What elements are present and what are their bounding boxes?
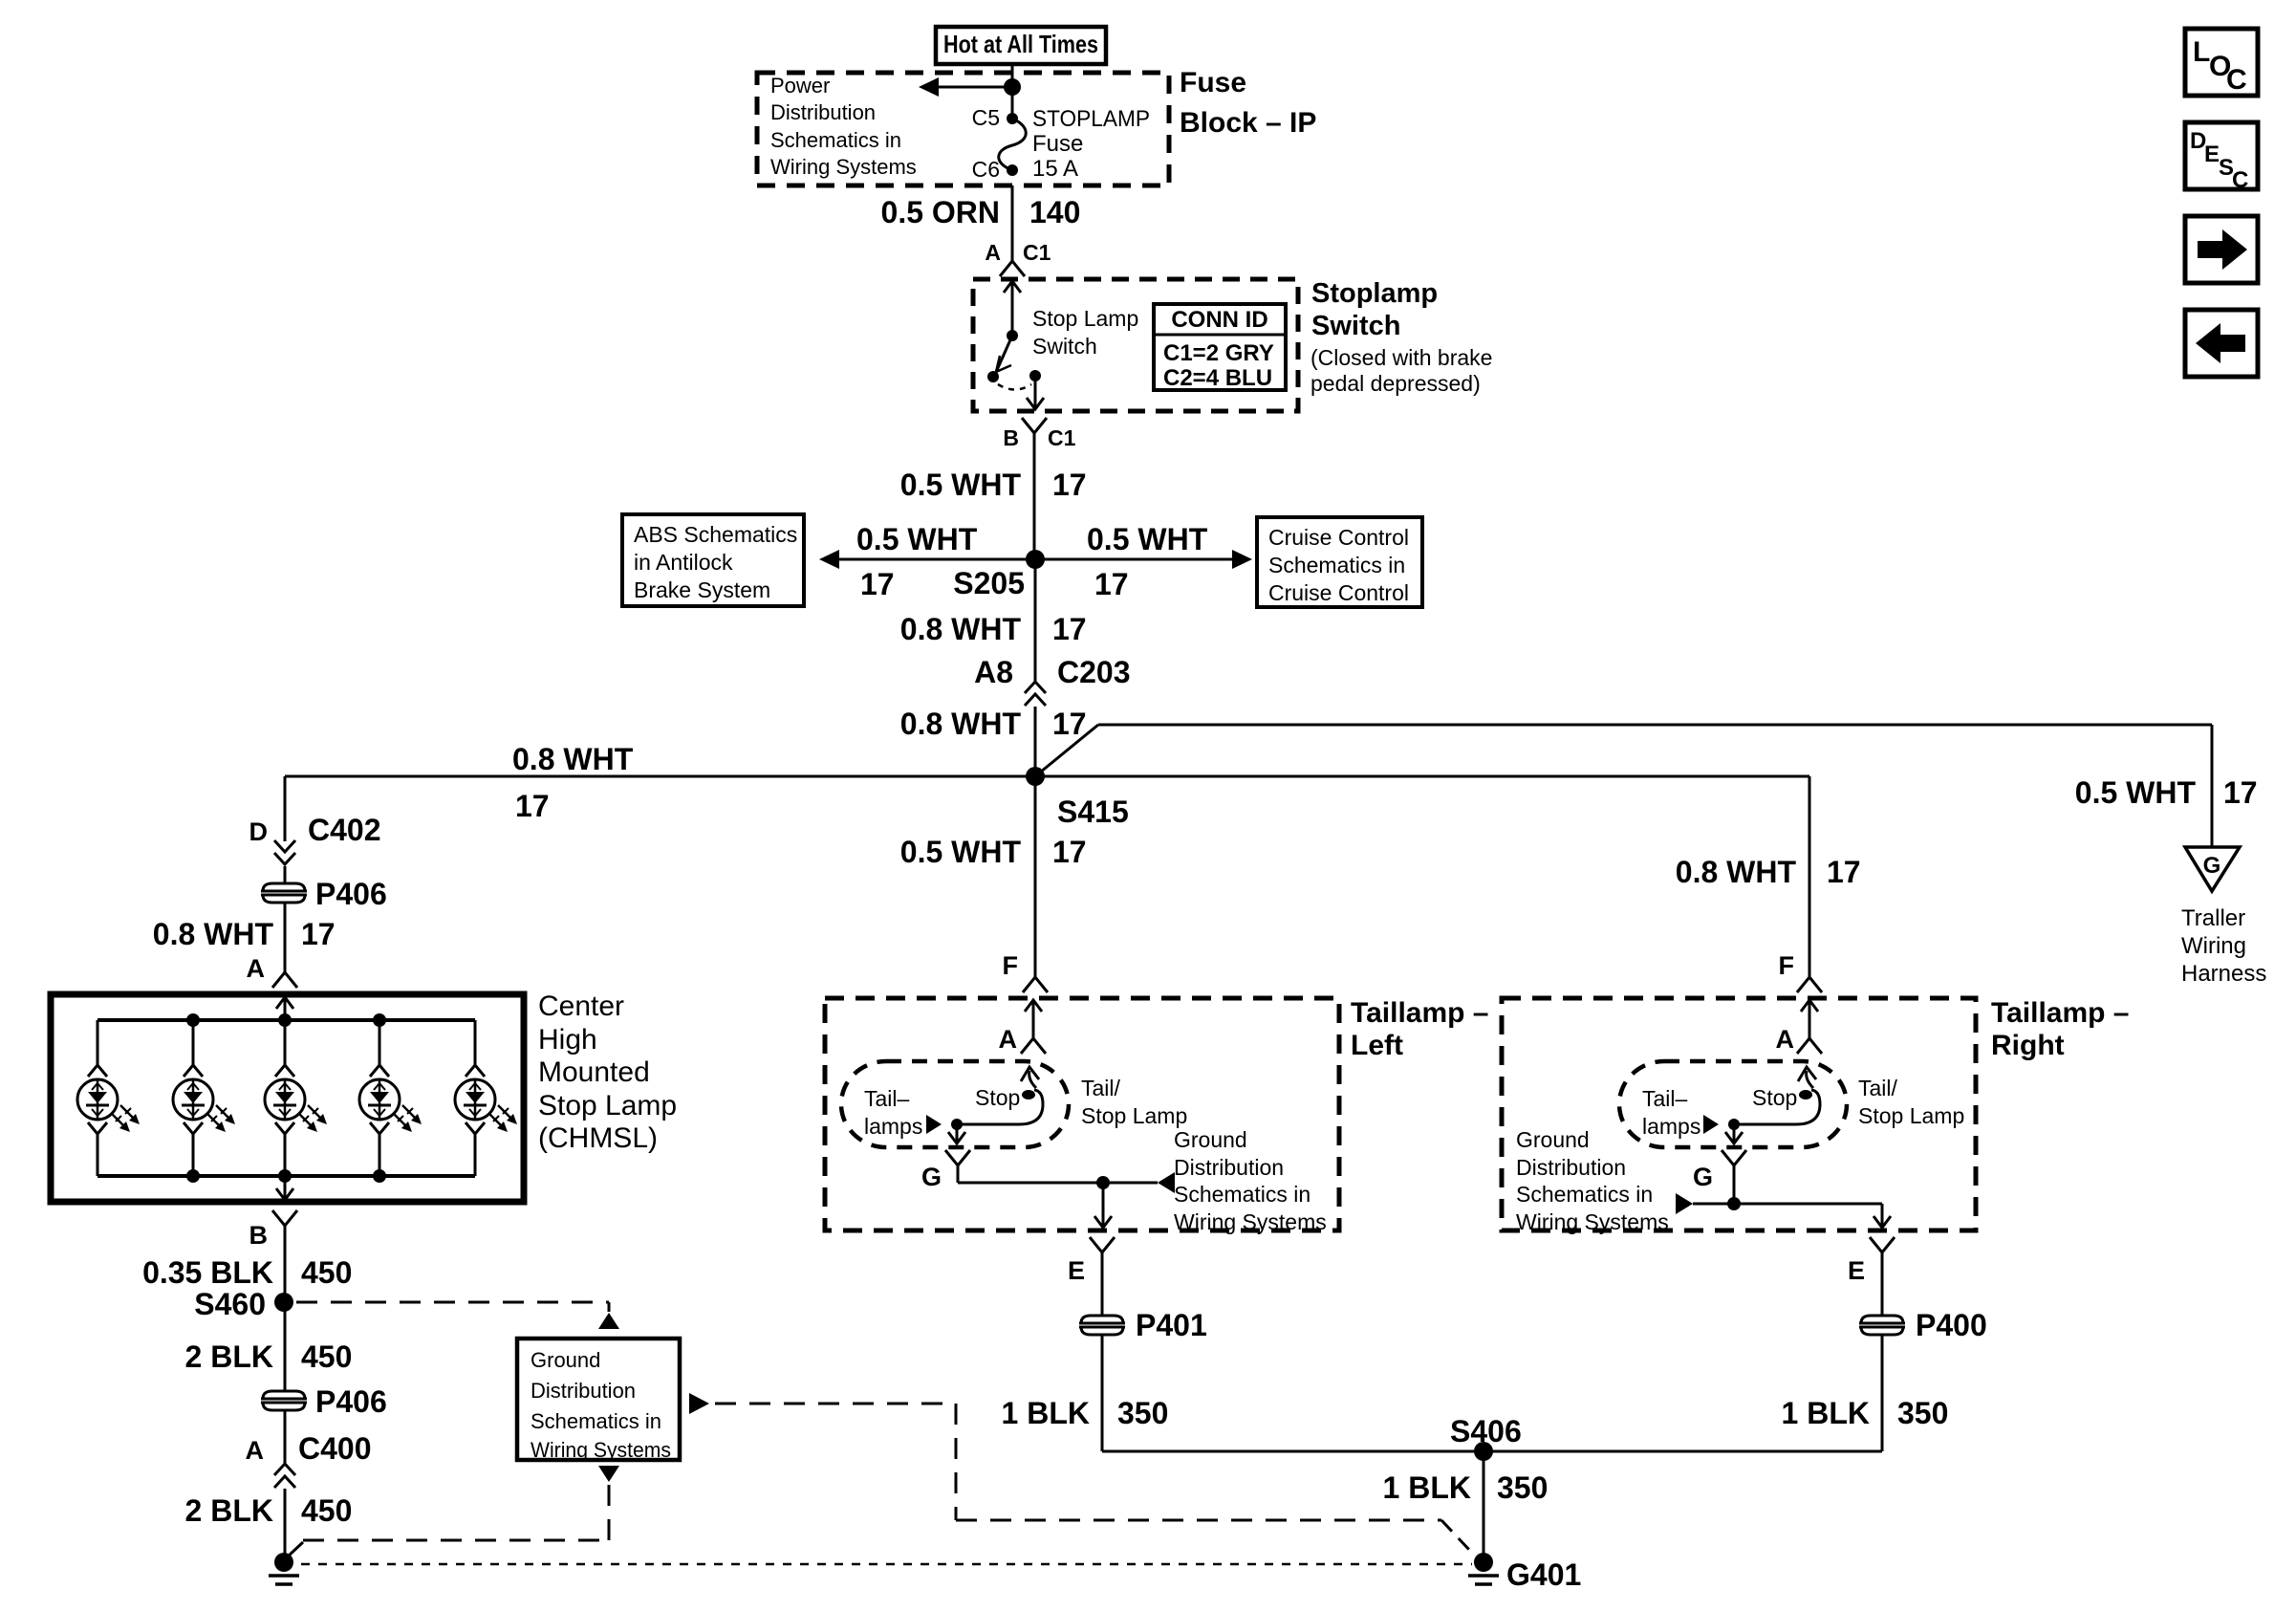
- svg-text:Tail/: Tail/: [1858, 1076, 1898, 1100]
- svg-text:0.8 WHT: 0.8 WHT: [153, 917, 274, 951]
- svg-text:17: 17: [1827, 855, 1861, 889]
- svg-text:Wiring Systems: Wiring Systems: [531, 1438, 671, 1462]
- wire to trailer wiring harness: [1098, 724, 2212, 727]
- svg-text:Stop Lamp: Stop Lamp: [1858, 1103, 1964, 1128]
- switch dashed travel arc: [998, 384, 1031, 390]
- svg-text:0.8 WHT: 0.8 WHT: [512, 742, 634, 776]
- svg-text:17: 17: [2223, 775, 2258, 810]
- svg-text:S415: S415: [1057, 795, 1129, 829]
- dashed link ground distribution box to G401 path: [608, 1485, 611, 1540]
- svg-text:High: High: [538, 1024, 597, 1056]
- svg-text:Stop Lamp: Stop Lamp: [1032, 306, 1138, 331]
- CHMSL bottom bus junction dot: [278, 1169, 292, 1183]
- svg-text:Ground: Ground: [531, 1348, 600, 1372]
- arrow down from ground distribution box: [598, 1466, 619, 1482]
- wire C400 to ground G: [284, 1489, 287, 1562]
- svg-text:Power: Power: [770, 74, 830, 98]
- icon box DESC: [2185, 122, 2258, 189]
- svg-text:2 BLK: 2 BLK: [185, 1493, 273, 1528]
- connector C1 fork at switch input: [1000, 261, 1025, 276]
- connector fork taillamp left pin E: [1090, 1237, 1115, 1252]
- arrow to ground distribution schematics: [1676, 1193, 1693, 1214]
- svg-text:Tail–: Tail–: [864, 1086, 910, 1111]
- fuse terminal dot C6: [1007, 164, 1018, 176]
- svg-text:Fuse: Fuse: [1032, 131, 1083, 157]
- taillamp left input arrow: [1032, 1000, 1035, 1015]
- svg-text:140: 140: [1029, 195, 1080, 229]
- stop contact arm with up arrow: [1807, 1071, 1813, 1088]
- svg-text:0.8 WHT: 0.8 WHT: [900, 612, 1022, 646]
- svg-text:A: A: [1776, 1025, 1795, 1054]
- main wire S415 right to taillamp right: [1035, 775, 1809, 778]
- feed arrow to Power Distribution Schematics: [921, 86, 1012, 89]
- switch arm with arrowhead: [997, 336, 1012, 370]
- wire P400 to splice S406: [1881, 1335, 1884, 1451]
- wire down to connector C402: [284, 776, 287, 841]
- svg-text:Cruise Control: Cruise Control: [1268, 580, 1409, 605]
- svg-text:C: C: [2226, 64, 2247, 96]
- wire switch B to splice S205: [1033, 433, 1036, 559]
- ground wire junction dot: [1096, 1176, 1110, 1189]
- tail filament wire: [1734, 1090, 1820, 1124]
- svg-text:E: E: [1848, 1256, 1865, 1285]
- svg-text:Distribution: Distribution: [531, 1379, 636, 1403]
- svg-text:Tail–: Tail–: [1642, 1086, 1688, 1111]
- svg-text:Switch: Switch: [1311, 311, 1400, 341]
- svg-text:Tail/: Tail/: [1081, 1076, 1121, 1100]
- svg-text:450: 450: [301, 1339, 352, 1374]
- svg-text:C1: C1: [1023, 240, 1051, 265]
- svg-text:STOPLAMP: STOPLAMP: [1032, 106, 1150, 132]
- bulb junction dot: [1728, 1119, 1740, 1130]
- power feed box Hot at All Times: [936, 27, 1106, 64]
- svg-text:A8: A8: [974, 655, 1013, 689]
- svg-text:Wiring: Wiring: [2181, 933, 2246, 959]
- svg-text:17: 17: [1052, 468, 1087, 502]
- CHMSL top bus junction dot: [373, 1013, 386, 1027]
- svg-text:F: F: [1003, 951, 1019, 980]
- CHMSL bottom bus: [97, 1174, 475, 1178]
- svg-text:Stop: Stop: [975, 1085, 1020, 1110]
- taillamp right input arrow: [1809, 1000, 1811, 1015]
- svg-text:1 BLK: 1 BLK: [1002, 1396, 1090, 1430]
- svg-text:CONN ID: CONN ID: [1171, 307, 1267, 333]
- svg-text:Schematics in: Schematics in: [1268, 553, 1405, 577]
- svg-text:450: 450: [301, 1255, 352, 1290]
- fuse block dashed outline Fuse Block - IP: [757, 73, 1169, 185]
- connector fork at CHMSL pin A: [272, 972, 297, 988]
- fuse terminal dot C5: [1007, 113, 1018, 124]
- out-of-page connector G trailer wiring harness: [2185, 847, 2240, 891]
- wire fuse C6 to connector C1 pin A: [1011, 185, 1014, 261]
- svg-text:0.5 WHT: 0.5 WHT: [1087, 522, 1208, 556]
- svg-text:Distribution: Distribution: [1174, 1155, 1284, 1180]
- svg-text:A: A: [247, 954, 266, 983]
- taillamp right ground wire: [1733, 1165, 1736, 1204]
- grommet P406 lower: [263, 1391, 305, 1410]
- taillamp left dashed outline: [825, 998, 1339, 1230]
- svg-text:Traller: Traller: [2181, 905, 2245, 931]
- wire P401 to splice S406: [1101, 1335, 1104, 1451]
- connector fork taillamp right pin E: [1870, 1237, 1895, 1252]
- svg-text:D: D: [249, 817, 269, 846]
- svg-text:17: 17: [1052, 612, 1087, 646]
- svg-text:350: 350: [1897, 1396, 1948, 1430]
- CHMSL top bus junction dot: [278, 1013, 292, 1027]
- icon box next-page arrow: [2185, 216, 2258, 283]
- svg-text:Ground: Ground: [1516, 1127, 1590, 1152]
- svg-text:G401: G401: [1506, 1557, 1581, 1592]
- wire S415 to taillamp left pin F: [1034, 776, 1037, 977]
- wire CHMSL B to splice S460: [284, 1226, 287, 1302]
- connector fork taillamp left pin F: [1023, 977, 1048, 992]
- branch wire to ABS schematics: [824, 558, 1035, 561]
- dashed link S460 to ground distribution box: [296, 1301, 609, 1304]
- connector fork taillamp right pin F: [1797, 977, 1822, 992]
- wire C203 to splice S415: [1034, 707, 1037, 776]
- switch right contact dot: [1029, 370, 1041, 381]
- switch left contact dot: [987, 371, 999, 382]
- svg-text:Taillamp –: Taillamp –: [1991, 997, 2130, 1029]
- bulb ground arrow: [956, 1124, 959, 1133]
- svg-text:(Closed with brake: (Closed with brake: [1310, 345, 1492, 370]
- svg-text:Schematics in: Schematics in: [1516, 1182, 1653, 1207]
- svg-text:L: L: [2193, 36, 2210, 68]
- svg-text:17: 17: [1094, 567, 1129, 601]
- svg-text:lamps: lamps: [1642, 1114, 1700, 1139]
- splice S406: [1474, 1442, 1493, 1461]
- wire to taillamp right pin F: [1809, 776, 1811, 977]
- svg-text:E: E: [2204, 142, 2220, 167]
- svg-text:C: C: [2232, 167, 2248, 193]
- inline connector C402: [274, 840, 295, 852]
- svg-text:S205: S205: [953, 566, 1025, 600]
- chassis ground G401: [1474, 1553, 1493, 1572]
- svg-text:C1=2 GRY: C1=2 GRY: [1163, 340, 1274, 366]
- switch pivot dot: [1007, 330, 1018, 341]
- inline connector C203: [1025, 682, 1046, 693]
- svg-text:17: 17: [860, 567, 895, 601]
- stop filament contact: [1799, 1090, 1812, 1099]
- CHMSL LED lamp 1: [97, 1020, 99, 1065]
- switch input arrow pin A: [1011, 281, 1014, 298]
- svg-text:0.5 WHT: 0.5 WHT: [900, 835, 1022, 869]
- wire C402 to grommet P406: [284, 866, 287, 883]
- svg-text:Distribution: Distribution: [770, 100, 876, 124]
- svg-text:0.5 WHT: 0.5 WHT: [2075, 775, 2197, 810]
- svg-text:Brake System: Brake System: [634, 577, 770, 602]
- svg-text:17: 17: [1052, 835, 1087, 869]
- taillamp left output wire pin E: [1102, 1183, 1105, 1216]
- wire S205 to connector C203: [1034, 559, 1037, 681]
- CHMSL box outline: [51, 994, 524, 1202]
- arrow to ground distribution schematics: [1158, 1172, 1175, 1193]
- svg-text:Schematics in: Schematics in: [531, 1409, 661, 1433]
- svg-text:17: 17: [1052, 707, 1087, 741]
- connector fork bulb pin A: [1021, 1038, 1046, 1054]
- bulb ellipse taillamp right: [1619, 1061, 1847, 1147]
- grommet P400: [1861, 1316, 1903, 1335]
- svg-text:F: F: [1779, 951, 1795, 980]
- stop contact arm with up arrow: [1029, 1071, 1036, 1088]
- svg-text:pedal depressed): pedal depressed): [1310, 371, 1481, 396]
- CHMSL LED lamp 3: [284, 1020, 287, 1065]
- CHMSL LED lamp 4: [379, 1020, 381, 1065]
- svg-text:Fuse: Fuse: [1180, 67, 1246, 98]
- svg-text:Wiring Systems: Wiring Systems: [1174, 1209, 1327, 1234]
- CHMSL LED lamp 2: [192, 1020, 195, 1065]
- grommet P401: [1081, 1316, 1123, 1335]
- taillamp right dashed outline: [1502, 998, 1976, 1230]
- svg-text:Schematics in: Schematics in: [770, 128, 901, 152]
- svg-text:in Antilock: in Antilock: [634, 550, 733, 575]
- svg-text:G: G: [921, 1163, 942, 1191]
- connector fork CHMSL pin B: [272, 1210, 297, 1226]
- svg-text:G: G: [2203, 853, 2221, 879]
- svg-text:lamps: lamps: [864, 1114, 922, 1139]
- svg-text:Right: Right: [1991, 1030, 2065, 1061]
- connector fork bulb ground pin G: [1722, 1150, 1746, 1165]
- svg-text:B: B: [249, 1221, 269, 1250]
- icon box LOC: [2185, 29, 2258, 96]
- CHMSL top bus junction dot: [186, 1013, 200, 1027]
- svg-text:Wiring Systems: Wiring Systems: [1516, 1209, 1669, 1234]
- inline connector C400: [274, 1464, 295, 1475]
- svg-text:Distribution: Distribution: [1516, 1155, 1626, 1180]
- svg-text:S460: S460: [194, 1287, 266, 1321]
- svg-text:Taillamp –: Taillamp –: [1351, 997, 1489, 1029]
- svg-text:0.35 BLK: 0.35 BLK: [142, 1255, 273, 1290]
- svg-text:C5: C5: [972, 105, 1000, 130]
- svg-text:0.5 ORN: 0.5 ORN: [881, 195, 1000, 229]
- svg-text:Mounted: Mounted: [538, 1056, 650, 1088]
- taillamp right output wire pin E: [1881, 1204, 1884, 1216]
- CHMSL output arrow: [284, 1176, 287, 1188]
- svg-text:Cruise Control: Cruise Control: [1268, 525, 1409, 550]
- CHMSL bottom bus junction dot: [186, 1169, 200, 1183]
- switch output wire with arrow pin B: [1034, 376, 1037, 396]
- svg-text:Switch: Switch: [1032, 334, 1097, 359]
- svg-text:C1: C1: [1048, 425, 1076, 450]
- branch riser to trailer harness line: [1035, 725, 1098, 776]
- svg-text:0.5 WHT: 0.5 WHT: [900, 468, 1022, 502]
- svg-text:Ground: Ground: [1174, 1127, 1247, 1152]
- svg-text:P406: P406: [315, 1384, 387, 1419]
- junction dot at fuse block feed: [1004, 78, 1021, 96]
- svg-text:1 BLK: 1 BLK: [1383, 1470, 1471, 1505]
- main wire bus S415 left to CHMSL branch: [285, 775, 1035, 778]
- svg-text:C6: C6: [972, 157, 1000, 182]
- svg-text:Schematics in: Schematics in: [1174, 1182, 1310, 1207]
- svg-text:S406: S406: [1450, 1414, 1522, 1448]
- arrow up to S460 link: [598, 1313, 619, 1329]
- fine dashed ground equipotential line to G401: [284, 1563, 1472, 1566]
- svg-text:450: 450: [301, 1493, 352, 1528]
- svg-text:Center: Center: [538, 991, 624, 1022]
- svg-text:C203: C203: [1057, 655, 1131, 689]
- svg-text:Harness: Harness: [2181, 961, 2266, 987]
- splice S415: [1026, 767, 1045, 786]
- tail filament wire: [957, 1090, 1043, 1124]
- svg-text:P401: P401: [1136, 1308, 1207, 1342]
- svg-text:Hot at All Times: Hot at All Times: [943, 30, 1098, 58]
- chassis ground at CHMSL harness: [274, 1553, 293, 1572]
- dashed link ground distribution box right arrow: [689, 1393, 709, 1414]
- svg-text:C400: C400: [298, 1431, 372, 1466]
- connector C1 fork at switch output pin B: [1022, 418, 1047, 433]
- bulb junction dot: [951, 1119, 963, 1130]
- CHMSL input arrow: [284, 997, 287, 1012]
- splice S205: [1026, 550, 1045, 569]
- fuse F-STOPLAMP 15A symbol: [999, 119, 1027, 170]
- icon box prev-page arrow: [2185, 310, 2258, 377]
- svg-text:Wiring Systems: Wiring Systems: [770, 155, 917, 179]
- svg-text:C402: C402: [308, 813, 381, 847]
- wire from Hot at All Times to fuse C5: [1011, 64, 1014, 119]
- wire E to grommet P401: [1101, 1252, 1104, 1316]
- svg-text:A: A: [985, 240, 1001, 265]
- svg-text:350: 350: [1117, 1396, 1168, 1430]
- wire P406 to connector C400: [284, 1410, 287, 1463]
- svg-text:Stop Lamp: Stop Lamp: [1081, 1103, 1187, 1128]
- tail-lamps feed arrow: [926, 1115, 942, 1134]
- svg-text:15 A: 15 A: [1032, 156, 1078, 182]
- svg-text:17: 17: [301, 917, 336, 951]
- svg-text:A: A: [999, 1025, 1018, 1054]
- svg-text:2 BLK: 2 BLK: [185, 1339, 273, 1374]
- branch wire to Cruise Control schematics: [1035, 558, 1247, 561]
- svg-text:B: B: [1003, 425, 1019, 450]
- svg-text:A: A: [246, 1436, 265, 1465]
- svg-text:17: 17: [515, 789, 550, 823]
- stoplamp switch dashed outline: [973, 279, 1298, 411]
- svg-text:P406: P406: [315, 877, 387, 911]
- wire E to grommet P400: [1881, 1252, 1884, 1316]
- svg-text:Left: Left: [1351, 1030, 1403, 1061]
- wire S406 to ground G401: [1483, 1451, 1485, 1562]
- bulb ellipse taillamp left: [841, 1061, 1069, 1147]
- grommet P406: [263, 883, 305, 903]
- CHMSL top bus: [97, 1018, 475, 1022]
- svg-text:Stop Lamp: Stop Lamp: [538, 1090, 677, 1121]
- svg-text:C2=4 BLU: C2=4 BLU: [1163, 365, 1272, 391]
- svg-text:0.8 WHT: 0.8 WHT: [900, 707, 1022, 741]
- svg-text:Block – IP: Block – IP: [1180, 107, 1316, 139]
- svg-text:ABS Schematics: ABS Schematics: [634, 522, 797, 547]
- svg-text:Stoplamp: Stoplamp: [1311, 278, 1438, 309]
- svg-text:0.5 WHT: 0.5 WHT: [856, 522, 978, 556]
- reference box ABS Schematics in Antilock Brake System: [622, 514, 804, 606]
- connector fork bulb ground pin G: [945, 1150, 970, 1165]
- wire S460 to grommet P406: [284, 1302, 287, 1391]
- ground wire junction dot: [1727, 1197, 1741, 1210]
- svg-text:P400: P400: [1916, 1308, 1987, 1342]
- wire P406 to CHMSL pin A: [284, 903, 287, 972]
- svg-text:E: E: [1068, 1256, 1085, 1285]
- svg-text:0.8 WHT: 0.8 WHT: [1676, 855, 1797, 889]
- splice S460: [274, 1293, 293, 1312]
- taillamp left ground wire: [957, 1165, 960, 1183]
- bulb ground arrow: [1733, 1124, 1736, 1133]
- stop filament contact: [1022, 1090, 1035, 1099]
- svg-text:1 BLK: 1 BLK: [1782, 1396, 1870, 1430]
- reference box Cruise Control Schematics in Cruise Control: [1257, 517, 1422, 607]
- svg-text:G: G: [1693, 1163, 1713, 1191]
- tail-lamps feed arrow: [1703, 1115, 1719, 1134]
- svg-text:350: 350: [1497, 1470, 1548, 1505]
- connector fork bulb pin A: [1797, 1038, 1822, 1054]
- reference box Ground Distribution Schematics in Wiring Systems: [517, 1339, 680, 1460]
- svg-text:(CHMSL): (CHMSL): [538, 1122, 658, 1154]
- CHMSL LED lamp 5: [474, 1020, 477, 1065]
- CHMSL bottom bus junction dot: [373, 1169, 386, 1183]
- svg-text:Stop: Stop: [1752, 1085, 1797, 1110]
- CONN ID table box: [1154, 304, 1286, 390]
